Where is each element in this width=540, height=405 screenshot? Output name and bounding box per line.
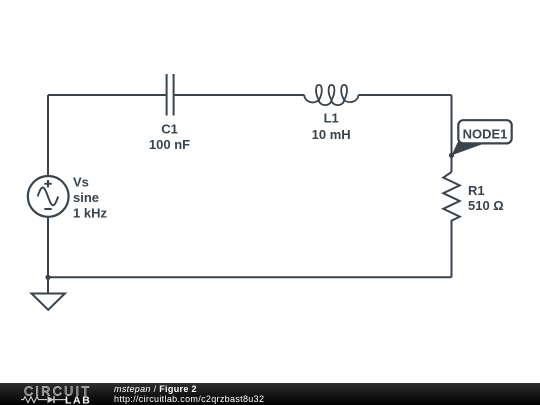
svg-text:LAB: LAB <box>65 395 91 405</box>
svg-text:R1: R1 <box>468 183 485 198</box>
svg-text:C1: C1 <box>161 122 178 137</box>
svg-text:NODE1: NODE1 <box>463 127 508 142</box>
svg-text:sine: sine <box>73 190 99 205</box>
svg-text:1 kHz: 1 kHz <box>73 205 107 220</box>
svg-text:100 nF: 100 nF <box>149 137 190 152</box>
svg-text:L1: L1 <box>324 111 339 126</box>
svg-text:Vs: Vs <box>73 175 89 190</box>
svg-text:510 Ω: 510 Ω <box>468 198 504 213</box>
svg-text:10 mH: 10 mH <box>312 127 351 142</box>
